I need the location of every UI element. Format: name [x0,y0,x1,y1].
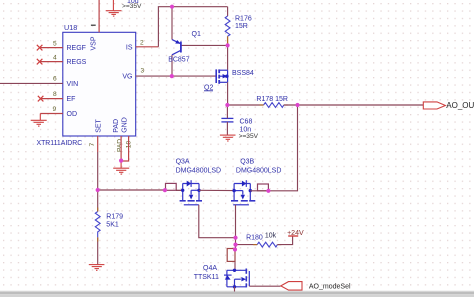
sheet edge strip [0,291,474,292]
Q3B right bar [249,184,251,201]
Q4A gate lead to port [249,285,280,287]
ground under PAD/GND pins [113,161,129,175]
Q4A source lead down [234,287,236,292]
svg-text:VIN: VIN [67,81,79,88]
Q4A gate staple [227,249,235,262]
svg-text:R176: R176 [235,16,252,23]
wire SET down to R179 junction [97,152,99,212]
junction Q4A staple top [233,247,237,251]
Q3A channel dashes [180,200,186,202]
pin GND stub [121,136,129,161]
wire R176 top lead [227,7,229,16]
junction PAD/GND [119,159,123,163]
Q3B left bar [233,184,235,201]
wire Q1 emitter drop [171,7,173,40]
svg-text:C68: C68 [240,118,253,125]
Q3B substrate arrow [241,195,245,200]
ground under R179 [89,265,105,271]
Q3A body diode triangle [187,181,191,187]
Q2 body arrow [223,74,228,78]
pin stubs (red) [40,0,159,161]
junction SET/R179 [96,188,100,192]
wire gates junction down to R180 node [235,238,237,245]
wire staple to Q4A [234,261,236,270]
pin number 1 (rotated, dash) [91,25,96,26]
junction Q3A gate wire [163,188,167,192]
junction R178 right [295,103,299,107]
junction rail/emitter [170,5,174,9]
Q4A bottom bar [227,286,246,288]
wire node down through staple to Q4A [235,245,237,249]
svg-text:R179: R179 [106,213,123,220]
wire IS to top rail [158,7,227,47]
svg-text:4: 4 [53,55,57,62]
Q3A gate staple [166,183,177,190]
Q4A body diode bar [224,274,232,276]
Q3A top edge [183,183,199,185]
pin 5 stub [40,47,63,49]
svg-text:VSP: VSP [90,36,97,50]
svg-text:Q1: Q1 [192,31,201,38]
resistor R176 [225,16,230,36]
Q4A left edge [226,270,228,287]
pin 9 stub [40,113,63,115]
svg-text:IS: IS [126,44,133,51]
Q3A body diode bar [190,180,192,187]
wire R176 bottom lead [227,36,229,45]
Q4A internal dots [233,269,236,272]
svg-text:10u: 10u [127,0,139,5]
svg-text:15R: 15R [235,23,248,30]
svg-text:DMG4800LSD: DMG4800LSD [236,168,282,175]
wire junction to Q2 drain [227,45,229,70]
Q3A body line [191,189,199,191]
wire Q3B right terminal [250,190,268,192]
svg-text:Q3B: Q3B [240,158,254,165]
Q3B body line [234,190,243,192]
svg-text:5K1: 5K1 [106,222,119,229]
junction VG/collector [170,74,174,78]
capacitor C68 [221,118,233,122]
svg-text:U18: U18 [64,23,77,32]
IC U18 body [63,32,136,136]
svg-text:TTSK11: TTSK11 [194,274,219,281]
X mark pin 8 [38,96,44,102]
Q3B body diode triangle [242,181,246,187]
Q3B top edge [234,183,250,185]
Q4A body line [235,278,241,280]
X mark pin 5 [37,45,43,51]
svg-text:3: 3 [141,68,145,75]
pin SET stub [97,136,99,152]
svg-text:REGF: REGF [67,45,86,52]
junction gates [233,236,237,240]
svg-text:XTR111AIDRC: XTR111AIDRC [37,140,83,147]
C68 bottom lead [226,122,228,135]
junction base/R176/Q2 [226,43,230,47]
svg-text:DMG4800LSD: DMG4800LSD [176,168,222,175]
pin 8 stub [40,98,63,100]
C68 top lead [226,105,228,118]
X mark pin 4 [37,59,43,65]
junction R178 left [225,103,229,107]
port AO_OUT [423,102,445,109]
pin IS stub [136,46,159,48]
Q3B internal dots [232,189,235,192]
svg-text:9: 9 [53,106,57,113]
Q3A gate plate [184,204,199,206]
svg-text:SET: SET [96,118,103,132]
wire Q1 base to junction [181,44,228,46]
Q3B body diode bar [245,180,247,187]
Q4A gate plate [248,271,250,286]
wire VG to Q2 gate [136,75,217,77]
svg-text:AO_modeSel: AO_modeSel [309,284,351,291]
Q4A substrate arrow [241,277,246,281]
pin VSP stub [98,0,100,32]
transistor Q1 [172,40,181,55]
Q3B gate plate [233,204,249,206]
svg-text:OD: OD [67,111,78,118]
svg-text:R180: R180 [246,235,263,242]
resistor R179 [95,212,100,238]
pin numbers [53,25,145,152]
svg-text:10k: 10k [265,232,277,239]
port AO_modeSel [281,282,302,291]
mosfet Q4A TTSK11 [224,269,249,288]
svg-text:R178 15R: R178 15R [256,96,288,103]
Q3B gate staple [258,184,269,191]
resistor R178 [264,103,284,108]
Q3B gate lead down [235,205,237,238]
Q2 body dot [225,75,228,78]
ground at OD pin [31,114,47,127]
pin names inside [67,36,133,133]
wire junction to Q3A [98,189,165,191]
mosfet Q2 BSS84 [216,69,227,83]
svg-text:6: 6 [53,76,57,83]
no-ERC X marks [37,45,44,102]
wire Q2 source down to R178 node [227,82,229,105]
Q3A internal dots [181,189,184,192]
Q3A left bar [182,183,184,200]
svg-text:>=35V: >=35V [239,133,259,140]
power port +24V [288,235,298,237]
svg-text:8: 8 [53,91,57,98]
svg-text:VG: VG [122,74,132,81]
Q1 emitter arrow [175,40,181,44]
wire Q3A to Q3B [199,189,234,191]
Q3B channel dashes [231,200,238,202]
svg-text:BSS84: BSS84 [232,70,254,77]
svg-text:2: 2 [140,39,144,46]
resistor R180 [257,242,277,247]
svg-text:GND: GND [121,117,128,133]
Q3A substrate arrow [189,195,193,200]
Q3A right bar [198,184,200,201]
wire R180 node left lead [236,244,258,246]
svg-text:BC857: BC857 [168,56,190,63]
Q4A top bar [227,269,246,271]
svg-text:PAD: PAD [117,139,124,152]
wire R179 to ground [97,237,99,264]
wire node to R178 [227,104,263,106]
svg-text:7: 7 [89,143,96,147]
mosfet Q3A DMG4800LSD [166,180,203,205]
wire R178 to AO_OUT [284,104,424,106]
svg-text:AO_OUT: AO_OUT [446,101,474,110]
Q3A gate lead down [199,205,236,238]
svg-text:Q3A: Q3A [176,158,190,165]
pin 4 stub [40,61,63,63]
Q4A body diode triangle [225,275,231,279]
wire down to Q3B right [268,105,297,191]
wire VIN from left edge [0,82,63,84]
junction Q3B right [266,189,270,193]
svg-text:PAD: PAD [113,119,120,133]
mosfet Q3B DMG4800LSD [231,180,268,205]
junction R180 [233,243,237,247]
svg-text:+24V: +24V [287,230,304,237]
wire R180 to +24V [277,236,292,245]
svg-text:5: 5 [53,41,57,48]
junction dots (magenta) [96,5,300,252]
top ground symbol [106,0,122,16]
ground under C68 [220,135,236,141]
svg-text:EF: EF [67,96,76,103]
svg-text:Q4A: Q4A [203,265,217,272]
wire Q1 collector drop [171,55,173,76]
svg-text:REGS: REGS [67,59,87,66]
Q4A channel dashes [245,269,247,274]
pin PAD stub [120,136,122,161]
